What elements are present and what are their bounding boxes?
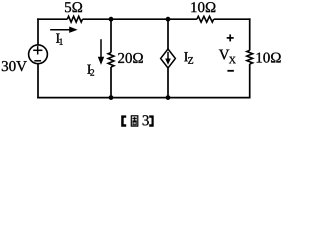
wire diamond branch lower (167, 68, 169, 98)
resistor R4 10Ω (right vertical) (247, 50, 253, 64)
wire top rail (37, 18, 250, 20)
wire right branch upper (249, 18, 251, 50)
dependent current source IZ (diamond) (161, 49, 176, 68)
caption right lenticular bracket 】 (149, 115, 154, 126)
node dot top-right junction (166, 17, 171, 22)
label VX (219, 50, 236, 64)
node dot bottom-right junction (166, 95, 171, 100)
wire left branch upper (37, 18, 39, 45)
caption digit 3 (143, 115, 149, 125)
caption left lenticular bracket 【 (121, 115, 126, 126)
current arrow I2 (98, 39, 104, 65)
caption CJK character 圖 (131, 116, 138, 126)
resistor R3 10Ω (top-right) (197, 16, 214, 22)
node dot bottom-left junction (109, 95, 114, 100)
label IZ (184, 52, 193, 64)
label 10Ω top (191, 2, 215, 12)
wire bottom rail (37, 97, 250, 99)
voltage source V1 30V (29, 45, 48, 64)
label 20Ω (118, 53, 143, 63)
node dot top-left junction (109, 17, 114, 22)
label 10Ω right (257, 53, 281, 63)
label 5Ω (65, 2, 82, 12)
wire 20Ω branch lower (110, 67, 112, 98)
label plus sign of VX (227, 34, 234, 41)
wire right branch lower (249, 64, 251, 98)
resistor R1 5Ω (top-left) (67, 16, 82, 22)
label I1 (56, 34, 63, 45)
label 30V (2, 61, 27, 71)
wire diamond branch upper (167, 19, 169, 49)
label I2 (87, 65, 94, 76)
wire left branch lower (37, 64, 39, 99)
wire 20Ω branch upper (110, 19, 112, 52)
resistor R2 20Ω (middle vertical) (108, 53, 114, 68)
label minus sign of VX (227, 70, 234, 72)
current arrow I1 (50, 27, 77, 33)
